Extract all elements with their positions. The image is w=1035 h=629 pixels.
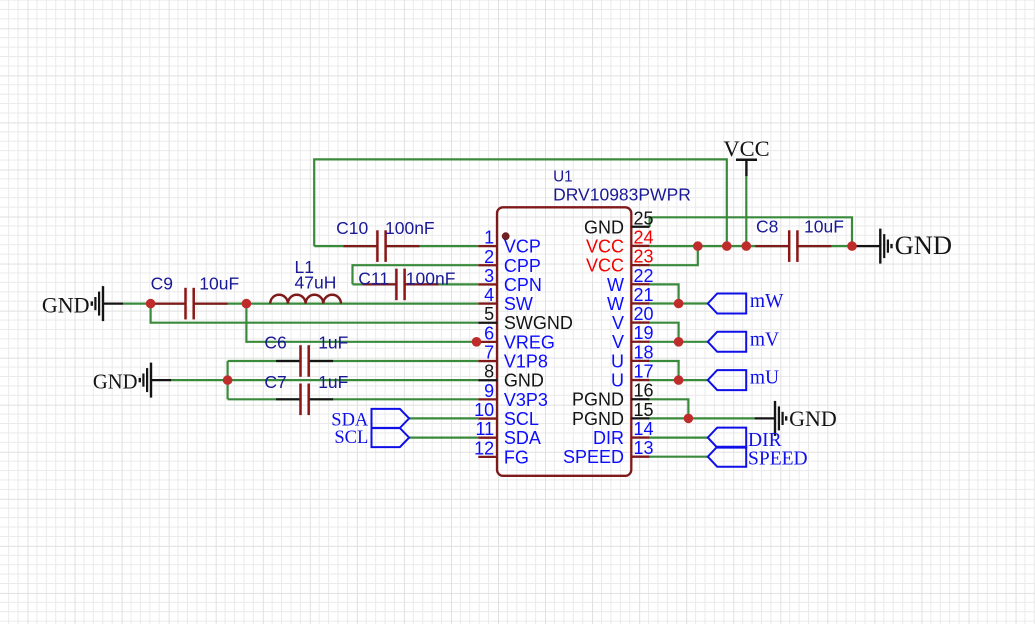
- net flag mV: [708, 329, 779, 352]
- svg-text:12: 12: [474, 438, 494, 458]
- svg-text:V: V: [612, 313, 624, 333]
- svg-text:SCL: SCL: [504, 409, 539, 429]
- wire pin13 to SPEED flag: [650, 456, 708, 458]
- wire C7 row to pin9 V3P3: [228, 398, 479, 400]
- svg-text:SPEED: SPEED: [563, 447, 624, 467]
- svg-text:VCC: VCC: [586, 256, 624, 276]
- svg-text:VCP: VCP: [504, 237, 541, 257]
- U1 pin 1 (VCP): [478, 228, 541, 257]
- svg-text:25: 25: [634, 208, 654, 228]
- svg-text:GND: GND: [93, 371, 138, 393]
- svg-text:VCC: VCC: [723, 136, 769, 161]
- wire SWGND: C9 junction down to pin5: [151, 304, 479, 323]
- wire pin23 VCC up to pin24 net: [650, 246, 698, 265]
- junction W net: [674, 299, 684, 309]
- svg-text:VREG: VREG: [504, 332, 555, 352]
- net flag SDA: [331, 409, 409, 431]
- svg-text:mV: mV: [750, 329, 779, 350]
- svg-text:2: 2: [484, 247, 494, 267]
- svg-text:1uF: 1uF: [318, 372, 348, 392]
- U1 pin 4 (SW): [478, 285, 533, 314]
- U1 pin 15 (PGND): [572, 400, 654, 429]
- svg-text:V3P3: V3P3: [504, 390, 548, 410]
- svg-text:GND: GND: [895, 230, 952, 260]
- ground GND1 (left, SW row): [42, 286, 123, 321]
- wire C6 row to pin7 V1P8: [228, 360, 479, 362]
- wire pin16 PGND down to pin15 net: [650, 399, 689, 418]
- svg-text:10: 10: [474, 400, 494, 420]
- svg-text:17: 17: [634, 362, 654, 382]
- wire GND2 row to pin8 GND: [170, 379, 478, 381]
- U1 pin 24 (VCC): [586, 227, 654, 256]
- wire vertical joining C6 and C7: [227, 361, 229, 399]
- net flag SPEED: [708, 447, 808, 470]
- U1 pin 9 (V3P3): [478, 381, 548, 410]
- wire pin18 U down to pin17 net: [650, 361, 679, 380]
- svg-text:19: 19: [634, 323, 654, 343]
- U1 pin 18 (U): [611, 342, 654, 371]
- U1 pin 13 (SPEED): [563, 438, 654, 467]
- net flag mW: [708, 291, 784, 314]
- wire pin25 GND to right down to C8 right: [650, 217, 852, 246]
- svg-text:W: W: [607, 275, 624, 295]
- svg-text:SCL: SCL: [334, 428, 368, 448]
- svg-text:GND: GND: [584, 217, 624, 237]
- junction U net: [674, 375, 684, 385]
- svg-text:SPEED: SPEED: [748, 448, 808, 469]
- svg-text:DIR: DIR: [593, 428, 624, 448]
- wire pin24 VCC row to C8 and GND: [650, 245, 852, 247]
- svg-text:14: 14: [634, 419, 654, 439]
- svg-text:1uF: 1uF: [318, 332, 348, 352]
- svg-text:V: V: [612, 332, 624, 352]
- wire pin20 V down to pin19 net: [650, 323, 679, 342]
- svg-text:CPP: CPP: [504, 256, 541, 276]
- U1 pin 7 (V1P8): [478, 343, 548, 372]
- svg-text:100nF: 100nF: [385, 218, 435, 238]
- wire pin15 PGND to GND4: [650, 417, 755, 419]
- U1 pin 8 (GND): [478, 362, 544, 391]
- svg-text:18: 18: [634, 342, 654, 362]
- svg-text:FG: FG: [504, 447, 529, 467]
- inductor L1 47uH: [270, 257, 341, 303]
- svg-text:SWGND: SWGND: [504, 313, 573, 333]
- U1 pin 16 (PGND): [572, 381, 654, 410]
- svg-text:C11: C11: [358, 269, 389, 289]
- svg-text:15: 15: [634, 400, 654, 420]
- wire pin17 U to mU flag: [650, 379, 708, 381]
- svg-text:8: 8: [484, 362, 494, 382]
- svg-text:22: 22: [634, 266, 654, 286]
- svg-text:C10: C10: [336, 218, 368, 238]
- U1 pin 23 (VCC): [586, 247, 654, 276]
- svg-text:24: 24: [634, 227, 654, 247]
- U1 pin 25 (GND): [584, 208, 654, 237]
- svg-text:SW: SW: [504, 294, 533, 314]
- svg-text:4: 4: [484, 285, 494, 305]
- svg-text:21: 21: [634, 285, 654, 305]
- svg-text:C7: C7: [264, 372, 286, 392]
- junction VCC net / pin23 tap: [693, 241, 703, 251]
- wire pin21 W to mW flag: [650, 302, 708, 304]
- U1 pin 11 (SDA): [476, 419, 541, 448]
- wire pin1 row: C10 to pin 1: [314, 245, 478, 247]
- ground GND3 (top right, C8): [853, 229, 952, 264]
- wire pin2 CPP to C11 left: [353, 265, 479, 284]
- U1 pin 22 (W): [607, 266, 654, 295]
- capacitor C6 1uF: [264, 332, 348, 376]
- svg-text:GND: GND: [42, 292, 90, 317]
- svg-text:W: W: [607, 294, 624, 314]
- svg-text:C6: C6: [264, 332, 286, 352]
- svg-text:23: 23: [634, 247, 654, 267]
- U1 pin 10 (SCL): [474, 400, 539, 429]
- svg-text:GND: GND: [789, 406, 837, 431]
- svg-text:GND: GND: [504, 371, 544, 391]
- capacitor C7 1uF: [264, 372, 348, 415]
- svg-text:U: U: [611, 351, 624, 371]
- junction C9 right / VREG: [242, 299, 252, 309]
- svg-text:V1P8: V1P8: [504, 352, 548, 372]
- svg-text:SDA: SDA: [504, 428, 541, 448]
- U1 pin 14 (DIR): [593, 419, 654, 448]
- junction GND2 / C6 C7: [223, 375, 233, 385]
- svg-text:mW: mW: [750, 291, 784, 312]
- capacitor C9 10uF: [151, 273, 240, 319]
- svg-text:PGND: PGND: [572, 390, 624, 410]
- svg-text:100nF: 100nF: [406, 269, 456, 289]
- net flag SCL: [334, 428, 409, 448]
- junction PGND net: [684, 414, 694, 424]
- wire pin19 V to mV flag: [650, 341, 708, 343]
- junction C9 left / SWGND: [146, 299, 156, 309]
- svg-text:6: 6: [484, 323, 494, 343]
- svg-text:CPN: CPN: [504, 275, 542, 295]
- U1 pin 21 (W): [607, 285, 654, 314]
- svg-text:10uF: 10uF: [804, 217, 844, 237]
- power flag VCC: [723, 136, 769, 176]
- wire SDA flag to pin10: [409, 417, 478, 419]
- junction C8 right / GND net: [847, 241, 857, 251]
- svg-text:mU: mU: [750, 368, 779, 389]
- junction V net: [674, 337, 684, 347]
- wire pin14 to DIR flag: [650, 437, 708, 439]
- capacitor C11 100nF: [358, 269, 455, 301]
- svg-text:3: 3: [484, 266, 494, 286]
- wire GND1 - C9 - L1 - pin4 SW row: [123, 303, 478, 305]
- U1 pin 17 (U): [611, 362, 654, 391]
- svg-text:20: 20: [634, 304, 654, 324]
- wire VREG: L1 junction down to pin6: [246, 304, 476, 342]
- wire SCL flag to pin11: [409, 437, 478, 439]
- U1 pin 3 (CPN): [478, 266, 542, 295]
- U1 pin 12 (FG): [474, 438, 529, 467]
- wire pin22 W down to pin21 net: [650, 284, 679, 303]
- svg-text:U: U: [611, 371, 624, 391]
- svg-text:C8: C8: [756, 217, 778, 237]
- junction at VREG pin 6: [472, 337, 482, 347]
- svg-text:C9: C9: [151, 273, 173, 293]
- capacitor C8 10uF: [755, 217, 844, 262]
- svg-text:7: 7: [484, 343, 494, 363]
- wire pin3 CPN row through C11: [353, 283, 479, 285]
- wire VCC symbol stem to VCC net: [745, 176, 747, 247]
- svg-text:VCC: VCC: [586, 236, 624, 256]
- U1 pin 20 (V): [612, 304, 654, 333]
- net flag mU: [708, 368, 779, 391]
- U1 pin 5 (SWGND): [478, 304, 573, 333]
- svg-text:13: 13: [634, 438, 654, 458]
- svg-text:PGND: PGND: [572, 409, 624, 429]
- svg-text:DRV10983PWPR: DRV10983PWPR: [553, 184, 691, 204]
- svg-text:47uH: 47uH: [295, 272, 337, 292]
- U1 pin 6 (VREG): [478, 323, 555, 352]
- svg-text:1: 1: [484, 228, 494, 248]
- svg-text:9: 9: [484, 381, 494, 401]
- svg-text:16: 16: [634, 381, 654, 401]
- U1 pin 2 (CPP): [478, 247, 541, 276]
- ground GND4 (PGND pin15): [755, 401, 837, 436]
- svg-text:U1: U1: [553, 168, 573, 185]
- IC U1 DRV10983PWPR body: [497, 207, 631, 476]
- net flag DIR: [708, 428, 782, 452]
- svg-text:10uF: 10uF: [199, 273, 239, 293]
- svg-text:5: 5: [484, 304, 494, 324]
- svg-text:11: 11: [476, 419, 495, 439]
- ground GND2 (left, pin8 row): [93, 363, 171, 398]
- U1 pin 19 (V): [612, 323, 654, 352]
- capacitor C10 100nF: [336, 218, 435, 262]
- junction VCC net / VCC symbol: [742, 241, 752, 251]
- wire VCP net: pin1 to top rail over to VCC junction: [314, 159, 727, 246]
- junction VCC net / VCP rail: [722, 241, 732, 251]
- U1 pin 1 indicator dot: [502, 232, 510, 240]
